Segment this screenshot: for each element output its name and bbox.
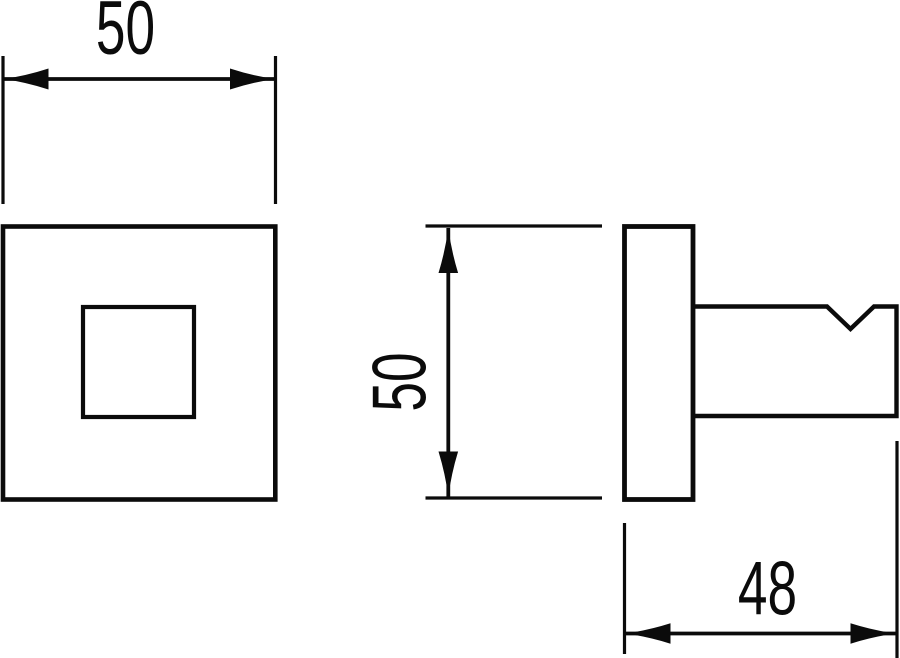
dimension 50 horizontal: dimension line — [4, 77, 275, 81]
dimension 50 horizontal: left arrowhead — [4, 69, 49, 90]
dimension 50 vertical: dimension line — [446, 228, 450, 497]
dimension 50 vertical: bottom arrowhead — [439, 452, 459, 497]
side view wall plate — [625, 227, 694, 500]
svg-text:48: 48 — [738, 546, 797, 631]
dimension 48: right extension line — [895, 441, 898, 658]
dimension 48: left extension line — [623, 523, 626, 654]
side view hook arm with notch — [693, 307, 897, 417]
dimension 48: right arrowhead — [851, 623, 896, 643]
dimension 50 horizontal: left extension line — [1, 56, 4, 204]
dimension 50 vertical: top extension line — [426, 224, 603, 227]
dimension 50 horizontal: right arrowhead — [230, 69, 275, 90]
front view inner square — [83, 307, 194, 417]
svg-text:50: 50 — [357, 352, 442, 411]
front view outer square plate — [3, 227, 275, 500]
dimension 50 vertical: bottom extension line — [426, 496, 603, 499]
dimension 48: dimension line — [626, 632, 897, 636]
dimension 50 horizontal: right extension line — [274, 56, 277, 204]
svg-text:50: 50 — [96, 0, 155, 70]
dimension 50 vertical: top arrowhead — [439, 228, 459, 273]
dimension 48: left arrowhead — [626, 623, 671, 643]
